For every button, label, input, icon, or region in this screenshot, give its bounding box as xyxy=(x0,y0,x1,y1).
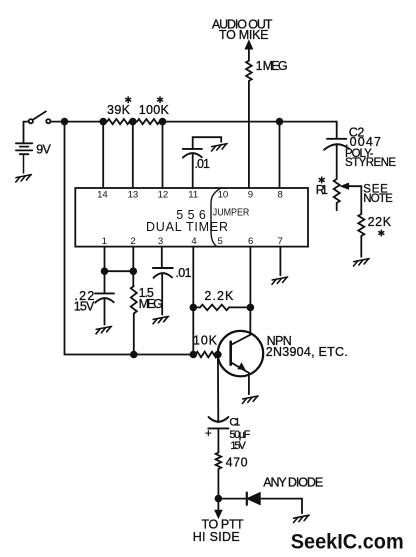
svg-text:MEG: MEG xyxy=(139,297,163,311)
resistor 2.2K xyxy=(200,305,229,311)
ground below 22K xyxy=(354,259,370,266)
wire pin12 up xyxy=(162,122,164,188)
svg-text:7: 7 xyxy=(278,236,283,247)
svg-text:1 MEG: 1 MEG xyxy=(256,59,288,73)
svg-text:3: 3 xyxy=(158,236,163,247)
wire diode branch xyxy=(218,499,302,514)
svg-text:15V: 15V xyxy=(74,300,95,314)
svg-text:NOTE: NOTE xyxy=(363,193,393,205)
wire pin13 up xyxy=(132,122,134,188)
wire pin8 up xyxy=(279,122,281,188)
svg-text:C1: C1 xyxy=(229,417,240,429)
svg-text:10: 10 xyxy=(218,189,229,200)
jumper pin10-pin5 xyxy=(211,188,220,246)
switch S1 xyxy=(29,111,51,123)
svg-text:9: 9 xyxy=(248,189,253,200)
svg-text:1: 1 xyxy=(102,236,107,247)
asterisk 100K xyxy=(157,96,163,103)
ground pin7 xyxy=(272,277,288,284)
wire pin7 down xyxy=(279,247,281,276)
asterisk 22K xyxy=(378,230,384,237)
wire pin4 down xyxy=(192,247,194,355)
wire pin6 down xyxy=(249,247,251,308)
capacitor .01 pin3 xyxy=(153,247,173,315)
resistor 22K xyxy=(358,214,364,236)
node rail pin13 xyxy=(130,119,136,125)
wire top rail xyxy=(50,121,336,123)
capacitor .01 pin11 xyxy=(183,137,221,157)
wire pin2 down xyxy=(132,247,134,286)
svg-text:2: 2 xyxy=(130,236,135,247)
asterisk 39K xyxy=(125,96,384,236)
node base xyxy=(215,352,221,358)
node rail pin8 xyxy=(277,119,283,125)
label 556 DUAL TIMER xyxy=(146,208,228,234)
IC pin numbers xyxy=(97,189,283,247)
svg-text:R1: R1 xyxy=(316,183,328,197)
ground below pin3 cap xyxy=(153,316,169,323)
svg-text:9 V: 9 V xyxy=(36,143,51,157)
wire pin14 up xyxy=(102,122,104,188)
node rail pin14 xyxy=(100,119,106,125)
svg-text:SeekIC.com: SeekIC.com xyxy=(291,529,404,553)
wire base node to C1 xyxy=(217,355,219,423)
svg-text:2.2K: 2.2K xyxy=(204,289,234,303)
svg-text:4: 4 xyxy=(191,236,197,247)
asterisk R1 xyxy=(319,177,325,184)
svg-text:TO MIKE: TO MIKE xyxy=(219,28,269,42)
svg-text:11: 11 xyxy=(188,189,198,200)
arrow audio out xyxy=(245,41,252,49)
wire pin9 / audio line xyxy=(248,48,250,188)
capacitor C2 .0047 xyxy=(324,122,349,179)
capacitor .22 xyxy=(95,271,114,324)
arrow to PTT xyxy=(217,499,219,512)
svg-text:.01: .01 xyxy=(195,157,211,171)
svg-text:JUMPER: JUMPER xyxy=(213,207,250,218)
svg-text:ANY DIODE: ANY DIODE xyxy=(263,475,323,489)
resistor 1.5MEG xyxy=(131,286,137,314)
R1 wiper arrow xyxy=(348,185,361,187)
svg-text:13: 13 xyxy=(128,189,139,200)
ground below .22 xyxy=(96,326,112,333)
svg-text:22K: 22K xyxy=(368,215,392,229)
ground pin11 cap xyxy=(212,144,228,151)
svg-text:12: 12 xyxy=(158,189,169,200)
svg-text:5: 5 xyxy=(218,236,223,247)
svg-text:2N3904, ETC.: 2N3904, ETC. xyxy=(266,345,348,359)
wire pin11 up xyxy=(192,154,194,188)
svg-text:STYRENE: STYRENE xyxy=(345,157,396,169)
resistor 39K xyxy=(107,119,130,124)
wire collector xyxy=(249,307,251,334)
svg-text:10K: 10K xyxy=(193,334,218,348)
svg-text:470: 470 xyxy=(226,456,248,470)
transistor Q1 2N3904 xyxy=(218,331,263,376)
wire wiper to 22K xyxy=(360,186,362,214)
svg-text:39K: 39K xyxy=(107,103,131,117)
svg-text:15V: 15V xyxy=(230,440,246,452)
svg-text:HI SIDE: HI SIDE xyxy=(193,530,240,544)
node rail pin12 xyxy=(160,119,166,125)
svg-text:14: 14 xyxy=(97,189,108,200)
svg-text:DUAL TIMER: DUAL TIMER xyxy=(146,220,228,234)
IC U1 556 dual timer xyxy=(75,188,308,247)
svg-text:8: 8 xyxy=(278,189,283,200)
node pin4 10K xyxy=(190,352,196,358)
svg-text:50µF: 50µF xyxy=(229,429,250,441)
wire left rail down xyxy=(65,122,194,355)
wire pins1-2 tie xyxy=(105,270,134,272)
resistor 10K xyxy=(196,352,218,358)
svg-text:6: 6 xyxy=(248,236,253,247)
wire pin1 down xyxy=(104,247,106,272)
node PTT xyxy=(216,496,222,502)
svg-text:.01: .01 xyxy=(175,266,191,280)
potentiometer R1 xyxy=(334,179,340,203)
node rail-switch xyxy=(62,119,68,125)
resistor 100K xyxy=(137,119,160,124)
svg-text:100K: 100K xyxy=(139,103,170,117)
wire battery top xyxy=(24,122,29,142)
wire emitter down xyxy=(248,373,250,394)
resistor 1MEG xyxy=(246,61,252,81)
diode D1 xyxy=(247,493,260,505)
battery 9V xyxy=(16,143,32,173)
svg-text:+: + xyxy=(205,428,212,440)
ground emitter xyxy=(243,396,259,403)
ground diode xyxy=(294,515,310,522)
capacitor C1 50uF xyxy=(208,417,228,453)
resistor 470 xyxy=(216,453,222,470)
ground below battery xyxy=(16,175,32,182)
